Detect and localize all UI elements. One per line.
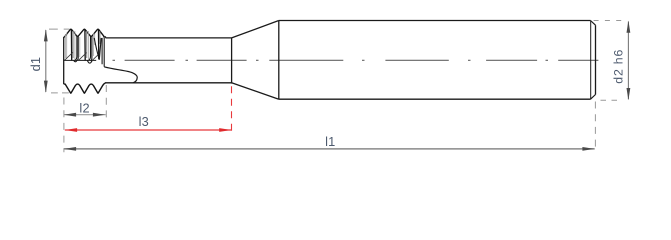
dimension l3 line red <box>65 129 232 131</box>
svg-text:l3: l3 <box>139 114 149 129</box>
chamfer bottom <box>591 95 596 100</box>
shank end face <box>595 25 597 94</box>
dimension d2 line <box>627 22 629 100</box>
extension line l3 right red <box>231 86 233 134</box>
cone top <box>232 21 279 38</box>
neck top line <box>106 37 232 39</box>
svg-text:l1: l1 <box>325 134 335 149</box>
valley flute edge pairs <box>75 36 92 61</box>
dimension l3 arrows <box>65 128 77 132</box>
chamfer top <box>591 21 596 26</box>
dimension d1 arrows <box>44 29 48 41</box>
shank start edge <box>278 21 280 100</box>
extension line d1 top <box>49 28 70 30</box>
thread root helix dips <box>74 60 93 63</box>
dimension l2 line <box>64 114 106 116</box>
svg-text:l2: l2 <box>79 101 89 116</box>
gray flute shading lines <box>65 31 94 60</box>
extension line l2 right <box>105 85 107 119</box>
shank bottom line <box>279 98 591 100</box>
neck end edge <box>231 38 233 84</box>
bottom thread profile zigzag <box>64 83 106 93</box>
shank top line <box>279 20 591 22</box>
cutter head thread teeth outline <box>64 29 106 38</box>
extension line left (l1 l2 l3) <box>63 98 65 153</box>
dimension l1 arrows <box>64 147 76 151</box>
tooth apex flute lines <box>71 29 98 61</box>
centerline <box>113 59 599 61</box>
thread runout notch <box>94 38 101 60</box>
head right edge flute lines <box>102 38 104 67</box>
neck bottom line <box>105 82 232 84</box>
cone bottom <box>232 83 279 99</box>
extension line d1 bottom <box>51 92 71 94</box>
extension line d2 bottom <box>601 99 622 101</box>
dimension d2 arrows <box>627 21 631 33</box>
svg-text:d2 h6: d2 h6 <box>611 49 625 84</box>
thread runout tongue <box>104 67 137 83</box>
flute secondary edges <box>73 31 100 58</box>
head left edge <box>63 37 65 84</box>
shank chamfer edge <box>590 21 592 100</box>
dimension l2 arrows <box>64 113 76 117</box>
flute bottom edge line <box>64 59 96 61</box>
helix diagonal lines <box>65 52 98 60</box>
extension line d2 top <box>594 20 622 22</box>
dimension l1 line <box>64 148 595 150</box>
svg-text:d1: d1 <box>28 57 43 72</box>
dimension d1 line <box>45 30 47 92</box>
extension line l1 right <box>594 102 596 153</box>
